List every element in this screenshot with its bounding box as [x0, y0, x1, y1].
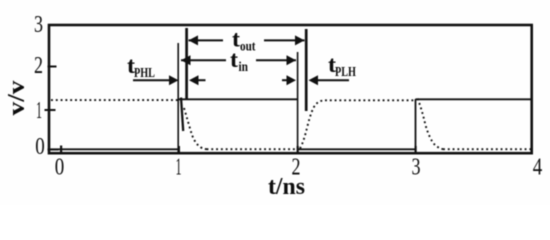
- svg-text:t/ns: t/ns: [268, 174, 305, 200]
- t_out dimension arrow left half: [189, 35, 224, 45]
- x tick t=3: [415, 146, 417, 153]
- output waveform: dotted rising curve after t=2: [300, 100, 325, 148]
- svg-text:3: 3: [412, 155, 421, 181]
- svg-text:3: 3: [34, 12, 43, 38]
- label t_in: [230, 47, 248, 75]
- y tick v=0: [48, 149, 59, 151]
- svg-text:2: 2: [34, 53, 43, 79]
- x tick t=1: [178, 146, 180, 153]
- t_PLH counter arrow pointing right to input edge: [282, 75, 296, 85]
- label t_PLH: [328, 52, 356, 80]
- input waveform: low segment t=2..3: [297, 148, 416, 150]
- output waveform: steep fall segment after t=1: [181, 98, 183, 132]
- y tick v=1: [45, 109, 56, 111]
- input waveform: rising edge at t=3: [415, 99, 417, 151]
- svg-text:out: out: [240, 40, 256, 55]
- plot box frame: [49, 25, 532, 153]
- t_in dimension arrow left half: [181, 55, 226, 65]
- svg-text:0: 0: [35, 134, 45, 160]
- marker line: output rising edge (thick): [305, 29, 308, 111]
- label t_out: [232, 27, 256, 55]
- t_in dimension arrow right half: [256, 55, 296, 65]
- svg-text:1: 1: [176, 155, 182, 181]
- y tick v=2: [48, 66, 57, 68]
- label t_PHL: [127, 53, 155, 81]
- marker line: input falling edge at t=2 (extended up): [297, 52, 299, 152]
- svg-text:v/v: v/v: [4, 81, 30, 116]
- x tick t=0: [60, 146, 62, 153]
- output waveform: dotted high t~2.2..3: [325, 99, 416, 101]
- input waveform: high segment t=3..4: [416, 98, 532, 100]
- svg-text:t: t: [230, 47, 238, 72]
- svg-text:0: 0: [55, 155, 65, 181]
- svg-text:1: 1: [36, 98, 42, 124]
- x tick t=2: [297, 146, 299, 153]
- svg-text:PLH: PLH: [335, 65, 356, 80]
- marker line: input rising edge at t=1 (extended up): [177, 43, 179, 152]
- svg-text:4: 4: [533, 155, 543, 181]
- t_PLH arrow pointing left to output edge: [309, 75, 350, 85]
- marker line: output falling edge (thick): [185, 28, 188, 99]
- input waveform: high segment t=1..2: [178, 98, 298, 100]
- output waveform: dotted falling curve after t=1: [184, 108, 207, 149]
- t_PHL counter arrow pointing left to output edge: [189, 75, 206, 85]
- output waveform: dotted low t~3.2..4: [443, 148, 531, 150]
- svg-text:in: in: [239, 60, 249, 75]
- t_PHL arrow pointing right to input edge: [133, 75, 179, 85]
- input waveform: low segment t=0..1: [51, 148, 179, 150]
- output waveform: dotted low t~1.2..2: [207, 148, 298, 150]
- output waveform: dotted falling curve after t=3: [418, 99, 444, 150]
- t_out dimension arrow right half: [264, 35, 305, 45]
- svg-text:PHL: PHL: [134, 66, 155, 81]
- output waveform: dotted high t=0..1: [51, 99, 178, 101]
